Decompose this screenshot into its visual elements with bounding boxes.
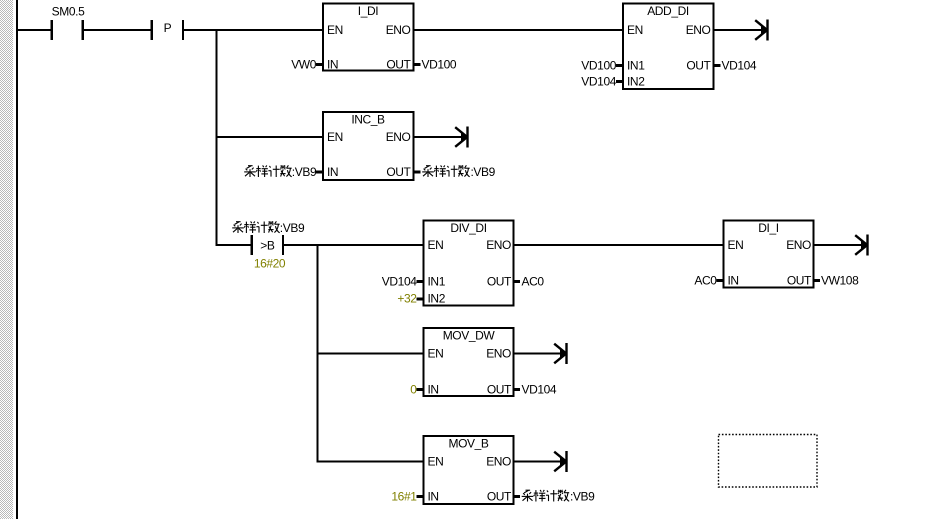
svg-text:OUT: OUT <box>386 165 411 179</box>
svg-text:16#20: 16#20 <box>254 257 286 271</box>
pin stub OUT of MOV_B <box>513 495 520 498</box>
wire MOV_B ENO to arrow <box>513 461 565 463</box>
contact P (positive edge) <box>152 20 183 40</box>
svg-text:IN2: IN2 <box>627 75 645 89</box>
svg-text:EN: EN <box>327 130 343 144</box>
contact compare >B <box>252 235 283 255</box>
svg-text:VD104: VD104 <box>382 275 417 289</box>
wire branch vertical at node A <box>216 29 218 246</box>
rung5 end arrow <box>554 451 566 472</box>
box DI_I <box>724 221 814 288</box>
wire DIV_DI ENO to DI_I EN <box>513 244 724 246</box>
svg-text:IN: IN <box>428 383 439 397</box>
svg-text:IN1: IN1 <box>428 275 446 289</box>
box MOV_DW <box>424 328 514 397</box>
svg-text:OUT: OUT <box>487 490 512 504</box>
operand 采样计数:VB9 out <box>422 165 495 179</box>
pin stub OUT of DI_I <box>813 279 820 282</box>
wire rung5 branch to MOV_B <box>318 461 424 463</box>
svg-text:VW108: VW108 <box>821 274 859 288</box>
wire contact to DIV_DI <box>284 244 423 246</box>
wire ADD_DI ENO to arrow <box>714 29 767 31</box>
svg-text:OUT: OUT <box>787 274 812 288</box>
svg-text:INC_B: INC_B <box>351 113 385 127</box>
svg-text::VB9: :VB9 <box>280 221 305 235</box>
left power rail <box>16 0 18 519</box>
svg-text:OUT: OUT <box>487 275 512 289</box>
svg-text:AC0: AC0 <box>694 274 717 288</box>
pin stub OUT of DIV_DI <box>513 280 520 283</box>
pin stub OUT of INC_B <box>414 171 421 174</box>
rung4 end arrow <box>554 343 566 364</box>
svg-text:EN: EN <box>327 23 343 37</box>
rung2 end arrow <box>455 127 467 148</box>
pin stub IN2 of DIV_DI <box>417 298 424 301</box>
wire MOV_DW ENO to arrow <box>513 353 565 355</box>
svg-text:+32: +32 <box>397 292 417 306</box>
pin stub IN of DI_I <box>717 279 724 282</box>
svg-text::VB9: :VB9 <box>471 165 496 179</box>
svg-text:OUT: OUT <box>487 383 512 397</box>
svg-text:VD104: VD104 <box>581 75 616 89</box>
left dithered gutter <box>0 0 13 519</box>
contact SM0.5 <box>52 20 83 40</box>
pin stub IN of MOV_DW <box>417 388 424 391</box>
operand 采样计数:VB9 out <box>522 490 595 504</box>
svg-text:OUT: OUT <box>386 58 411 72</box>
pin stub IN of I_DI <box>316 63 323 66</box>
svg-text:EN: EN <box>627 23 643 37</box>
svg-text:IN: IN <box>428 490 439 504</box>
svg-text:EN: EN <box>428 347 444 361</box>
svg-text:VD104: VD104 <box>522 383 557 397</box>
svg-text:I_DI: I_DI <box>358 4 378 18</box>
svg-text:ENO: ENO <box>786 238 811 252</box>
svg-text:ADD_DI: ADD_DI <box>647 4 689 18</box>
svg-text:VD104: VD104 <box>722 59 757 73</box>
operand 采样计数:VB9 in <box>244 165 317 179</box>
svg-text:IN2: IN2 <box>428 292 446 306</box>
svg-text:>B: >B <box>260 239 275 253</box>
wire rung2 branch to INC_B <box>217 136 324 138</box>
wire branch vertical at node B <box>317 244 319 463</box>
svg-text::VB9: :VB9 <box>570 490 595 504</box>
wire rung4 branch to MOV_DW <box>318 353 424 355</box>
svg-text:ENO: ENO <box>686 23 711 37</box>
svg-text:IN: IN <box>327 165 338 179</box>
box ADD_DI <box>623 4 714 90</box>
svg-text:IN: IN <box>327 58 338 72</box>
svg-text:VW0: VW0 <box>291 58 317 72</box>
wire rung3 branch to compare contact <box>217 244 251 246</box>
svg-text:VD100: VD100 <box>422 58 457 72</box>
operand 采样计数:VB9 above contact <box>232 221 305 235</box>
wire I_DI ENO to ADD_DI EN <box>414 29 624 31</box>
pin stub IN of MOV_B <box>417 495 424 498</box>
pin stub IN of INC_B <box>316 171 323 174</box>
svg-text:IN1: IN1 <box>627 59 645 73</box>
rung3 end arrow <box>855 235 867 256</box>
box I_DI <box>323 4 414 72</box>
rung1 end arrow <box>755 20 767 41</box>
svg-text:VD100: VD100 <box>581 59 616 73</box>
box INC_B <box>323 112 414 180</box>
svg-text:16#1: 16#1 <box>391 490 417 504</box>
svg-text:MOV_DW: MOV_DW <box>443 329 496 343</box>
svg-text:IN: IN <box>728 274 739 288</box>
svg-text:ENO: ENO <box>486 455 511 469</box>
svg-text:DI_I: DI_I <box>758 221 778 235</box>
svg-text:0: 0 <box>410 383 417 397</box>
svg-text:AC0: AC0 <box>522 275 545 289</box>
svg-text:MOV_B: MOV_B <box>448 437 488 451</box>
svg-text:P: P <box>164 21 172 35</box>
pin stub OUT of I_DI <box>414 63 421 66</box>
wire DI_I ENO to arrow <box>813 244 866 246</box>
pin stub OUT of MOV_DW <box>513 388 520 391</box>
svg-text:OUT: OUT <box>686 59 711 73</box>
wire INC_B ENO to arrow <box>414 136 467 138</box>
svg-text::VB9: :VB9 <box>292 165 317 179</box>
svg-text:EN: EN <box>728 238 744 252</box>
svg-text:ENO: ENO <box>486 347 511 361</box>
pin stub IN2 of ADD_DI <box>616 80 623 83</box>
wire contact P to I_DI box <box>184 29 323 31</box>
box DIV_DI <box>424 221 514 306</box>
svg-text:ENO: ENO <box>386 130 411 144</box>
svg-text:SM0.5: SM0.5 <box>52 5 85 19</box>
wire contact SM0.5 to contact P <box>84 29 151 31</box>
svg-text:EN: EN <box>428 238 444 252</box>
wire rung1 rail to contact SM0.5 <box>16 29 51 31</box>
svg-text:ENO: ENO <box>486 238 511 252</box>
svg-text:ENO: ENO <box>386 23 411 37</box>
selection cursor dotted box <box>719 435 818 488</box>
pin stub IN1 of ADD_DI <box>616 64 623 67</box>
pin stub OUT of ADD_DI <box>714 64 721 67</box>
svg-text:EN: EN <box>428 455 444 469</box>
svg-text:DIV_DI: DIV_DI <box>450 221 486 235</box>
box MOV_B <box>424 436 514 504</box>
pin stub IN1 of DIV_DI <box>417 280 424 283</box>
